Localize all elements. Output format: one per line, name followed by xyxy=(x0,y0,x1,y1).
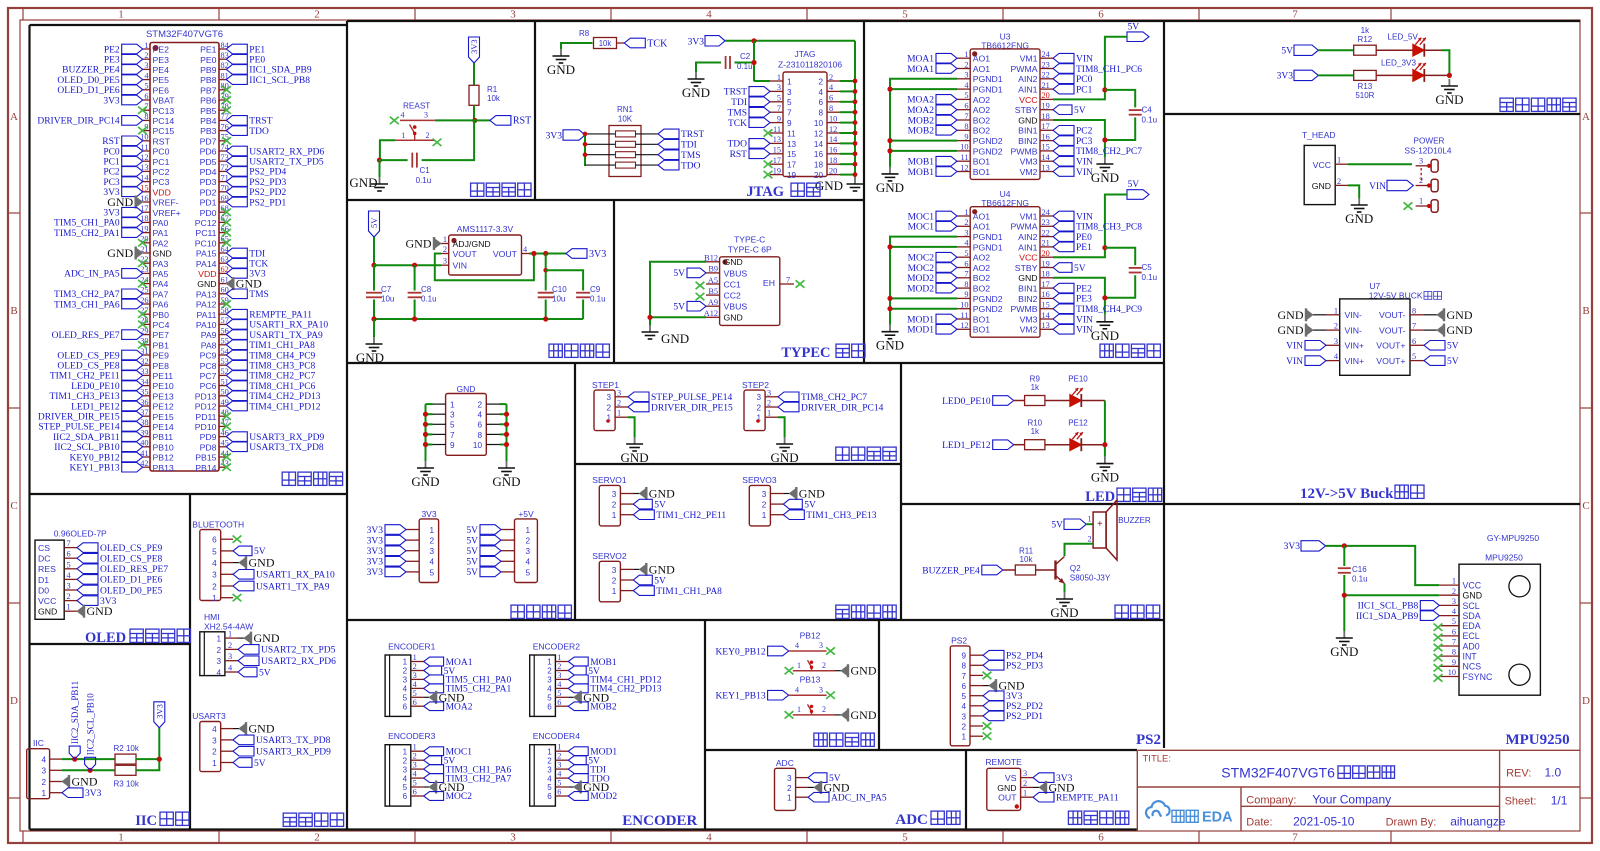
pin 6 VOUT+ U7 xyxy=(1410,344,1424,346)
pin 14 VM3 U3 xyxy=(1040,160,1053,162)
svg-text:1.0: 1.0 xyxy=(1545,766,1562,780)
svg-text:5V: 5V xyxy=(466,558,478,568)
svg-text:PC0: PC0 xyxy=(153,147,170,157)
pin 2 usart3 xyxy=(221,750,233,752)
wire R13 to LED2 xyxy=(1376,74,1413,76)
pin 8 BO2 U4 xyxy=(957,287,970,289)
svg-text:3: 3 xyxy=(216,657,221,666)
svg-text:GND: GND xyxy=(1091,170,1119,185)
svg-text:10u: 10u xyxy=(381,295,394,304)
pin 46 PD9 xyxy=(219,436,226,438)
svg-text:10: 10 xyxy=(1448,668,1456,677)
wire C1 to node up xyxy=(422,120,475,160)
net flag 5V hdr3 xyxy=(480,546,501,556)
svg-text:TIM4_CH2_PD13: TIM4_CH2_PD13 xyxy=(249,392,321,402)
svg-text:PE1: PE1 xyxy=(1076,243,1092,253)
pin 4 ENCODER1 xyxy=(411,687,424,689)
svg-text:16: 16 xyxy=(829,146,837,155)
svg-text:PWMB: PWMB xyxy=(1010,146,1037,156)
block label zhukongxinpian xyxy=(282,472,342,485)
pin 59 PA12 xyxy=(219,303,226,305)
pin 6 bluetooth xyxy=(221,538,233,540)
svg-text:9: 9 xyxy=(787,119,792,128)
net flag 5V SERVO3 xyxy=(783,499,802,509)
pin 2 jtag-right xyxy=(827,80,840,82)
net flag 5V STBY U3 xyxy=(1053,105,1072,115)
svg-text:6: 6 xyxy=(818,98,823,107)
pin 4 VOUT right xyxy=(522,253,530,255)
pin 1 hmi xyxy=(225,637,238,639)
svg-text:+5V: +5V xyxy=(518,509,534,519)
ground jtag bus xyxy=(854,177,856,184)
wire VOUT4 to 3V3 xyxy=(529,253,566,255)
svg-text:ECL: ECL xyxy=(1463,631,1480,641)
net flag TIM4_CH1_PD12 xyxy=(568,675,588,684)
capacitor C10 10u xyxy=(545,254,547,291)
capacitor C U4 xyxy=(1129,267,1142,269)
pin 21 AIN1 U4 xyxy=(1040,246,1053,248)
pin 2 SERVO2 xyxy=(620,579,633,581)
svg-text:BO1: BO1 xyxy=(973,157,991,167)
nc CC2 xyxy=(696,293,705,300)
svg-text:PA6: PA6 xyxy=(153,300,169,310)
svg-text:USART1_RX_PA10: USART1_RX_PA10 xyxy=(249,321,328,331)
svg-text:PC2: PC2 xyxy=(103,168,120,178)
svg-text:PA7: PA7 xyxy=(153,289,169,299)
svg-text:TYPE-C 6P: TYPE-C 6P xyxy=(728,245,772,255)
gnd arrow iic pin2 xyxy=(62,777,68,786)
svg-text:11: 11 xyxy=(787,129,796,138)
svg-text:TIM5_CH1_PA0: TIM5_CH1_PA0 xyxy=(54,219,120,229)
svg-text:BIN2: BIN2 xyxy=(1018,294,1037,304)
pin 20 jtag-right xyxy=(827,174,840,176)
svg-text:PD0: PD0 xyxy=(200,208,217,218)
pin 4 VIN+ U7 xyxy=(1326,360,1340,362)
net flag 3V3 out xyxy=(566,249,587,259)
svg-text:4: 4 xyxy=(212,559,217,568)
svg-text:MPU9250: MPU9250 xyxy=(1505,732,1569,748)
pin 5 5vhdr xyxy=(501,571,515,573)
svg-text:GND: GND xyxy=(38,607,57,617)
pin 72 PD4 xyxy=(219,170,226,172)
svg-text:VIN: VIN xyxy=(1076,168,1093,178)
pin 18 GND U3 xyxy=(1040,119,1053,121)
svg-text:13: 13 xyxy=(1042,163,1050,172)
pin 6 ENCODER1 xyxy=(411,705,424,707)
pin 13 PC2 xyxy=(143,170,150,172)
svg-text:15: 15 xyxy=(1042,143,1050,152)
svg-text:4: 4 xyxy=(706,9,712,21)
net flag TIM1_CH2_PE11 xyxy=(633,510,654,520)
svg-text:R1: R1 xyxy=(487,85,498,94)
svg-text:PD12: PD12 xyxy=(195,402,217,412)
svg-text:2: 2 xyxy=(822,661,826,670)
svg-text:PWMA: PWMA xyxy=(1010,222,1037,232)
wire node down to gnd xyxy=(379,160,381,177)
svg-text:VREF+: VREF+ xyxy=(153,208,181,218)
pin 82 PB9 xyxy=(219,68,226,70)
svg-text:TDO: TDO xyxy=(727,140,747,150)
net flag 5V ENCODER4 xyxy=(568,756,586,765)
pin 6 AO2 U4 xyxy=(957,267,970,269)
svg-text:PWMB: PWMB xyxy=(1010,304,1037,314)
svg-text:aihuangze: aihuangze xyxy=(1450,815,1506,829)
pin 5 ENCODER3 xyxy=(411,786,424,788)
wire bottom rail reg xyxy=(374,318,583,320)
capacitor C2 0.1u xyxy=(725,56,727,69)
switch contact 2 xyxy=(1431,179,1438,192)
wire c-branch U3 xyxy=(1105,90,1135,108)
svg-text:5: 5 xyxy=(964,249,968,258)
wire button3 to node xyxy=(435,119,475,121)
svg-text:2: 2 xyxy=(557,662,561,671)
pin 23 PWMA U4 xyxy=(1040,225,1053,227)
net flag 3V3 hdr4 xyxy=(385,557,406,567)
svg-text:74: 74 xyxy=(221,143,230,152)
svg-text:1: 1 xyxy=(1419,197,1423,206)
ground ind xyxy=(1448,79,1450,86)
svg-text:PE7: PE7 xyxy=(153,330,170,340)
svg-text:USART1_TX_PA9: USART1_TX_PA9 xyxy=(256,582,330,592)
pin 17 VREF+ xyxy=(143,211,150,213)
svg-text:3: 3 xyxy=(1023,769,1027,778)
net flag TIM1_CH1_PA8 xyxy=(633,586,654,596)
svg-text:6: 6 xyxy=(144,92,148,101)
svg-text:4: 4 xyxy=(403,685,408,694)
svg-text:PD2: PD2 xyxy=(200,187,217,197)
pin 5 bluetooth xyxy=(221,550,233,552)
svg-text:3V3: 3V3 xyxy=(1284,542,1301,552)
svg-text:TIM8_CH1_PC6: TIM8_CH1_PC6 xyxy=(1076,65,1142,75)
svg-text:BO2: BO2 xyxy=(973,126,991,136)
svg-text:1: 1 xyxy=(1088,515,1092,524)
svg-text:Date:: Date: xyxy=(1246,817,1272,829)
pin 18 PA0 xyxy=(143,221,150,223)
wire R8 to TCK xyxy=(617,42,625,44)
wire typec gnd B12 xyxy=(650,262,706,325)
svg-text:AMS1117-3.3V: AMS1117-3.3V xyxy=(457,224,514,234)
pin 1 jtag-left xyxy=(770,80,783,82)
svg-text:1: 1 xyxy=(1023,789,1027,798)
svg-text:VOUT: VOUT xyxy=(493,249,518,259)
svg-text:10k: 10k xyxy=(487,94,501,103)
svg-text:7: 7 xyxy=(787,109,792,118)
net flag MOA1 xyxy=(936,64,957,74)
svg-text:BO1: BO1 xyxy=(973,325,991,335)
net flag IIC1_SCL_PB8 xyxy=(1420,601,1439,611)
ground pgnd U4 xyxy=(889,325,891,332)
svg-text:1: 1 xyxy=(617,409,621,418)
svg-text:PA15: PA15 xyxy=(196,249,217,259)
svg-text:20: 20 xyxy=(829,166,837,175)
svg-text:5V: 5V xyxy=(673,303,685,313)
pin 70 PD2 xyxy=(219,191,226,193)
svg-text:C: C xyxy=(1582,500,1589,512)
svg-text:5: 5 xyxy=(902,832,908,844)
svg-text:IIC2_SDA_PB11: IIC2_SDA_PB11 xyxy=(70,681,80,744)
svg-text:Z-231011820106: Z-231011820106 xyxy=(778,60,842,70)
svg-text:GND: GND xyxy=(661,331,689,346)
pin 15 VDD xyxy=(143,191,150,193)
svg-text:R8: R8 xyxy=(579,29,590,38)
ground t_head xyxy=(1358,198,1360,205)
logo lceda xyxy=(1146,801,1170,818)
pin 7 jtag-left xyxy=(770,111,783,113)
pin 5 PE6 xyxy=(143,89,150,91)
wire gnd mpu xyxy=(1344,595,1439,631)
pin 2 adc xyxy=(796,786,808,788)
svg-text:GND: GND xyxy=(87,604,113,618)
pin 1 3v3hdr xyxy=(406,529,419,531)
svg-text:VOUT-: VOUT- xyxy=(1379,326,1406,336)
pin 2 GND mpu xyxy=(1439,594,1459,596)
ground right U4 xyxy=(1104,315,1106,322)
block label duojituozhan xyxy=(836,605,896,618)
svg-text:18: 18 xyxy=(1042,270,1050,279)
pin 19 STBY U4 xyxy=(1040,267,1053,269)
net flag 3V3 hdr2 xyxy=(385,535,406,545)
net flag MOD1 xyxy=(936,314,957,324)
capacitor C8 0.1u xyxy=(414,265,416,290)
pin 23 PA5 xyxy=(143,272,150,274)
svg-text:1: 1 xyxy=(144,41,148,50)
net flag VIN u7 pin4 xyxy=(1305,356,1326,366)
svg-text:5: 5 xyxy=(67,560,71,569)
pin 51 PC6 xyxy=(219,385,226,387)
svg-text:PD5: PD5 xyxy=(200,157,217,167)
pin 5 RES oled xyxy=(64,568,77,570)
pin 16 BIN2 U3 xyxy=(1040,140,1053,142)
svg-text:PGND2: PGND2 xyxy=(973,304,1003,314)
net flag REMPTE_PA11 xyxy=(1033,792,1054,802)
svg-text:USART3_TX_PD8: USART3_TX_PD8 xyxy=(256,736,331,746)
pin 1 ENCODER1 xyxy=(411,661,424,663)
svg-text:6: 6 xyxy=(829,94,833,103)
wire R11 to base xyxy=(1036,569,1056,571)
svg-text:2: 2 xyxy=(1023,779,1027,788)
svg-text:NCS: NCS xyxy=(1463,662,1482,672)
pin 27 PB0 xyxy=(143,313,150,315)
svg-text:PS2_PD4: PS2_PD4 xyxy=(249,168,286,178)
pin 2 GND t_head xyxy=(1335,184,1348,186)
svg-text:GND: GND xyxy=(1463,591,1483,601)
pin 3 D0 oled xyxy=(64,589,77,591)
block label fuweidianlu xyxy=(471,183,531,196)
svg-text:GND: GND xyxy=(249,556,275,570)
pin 1 SERVO2 xyxy=(620,590,633,592)
svg-text:TDI: TDI xyxy=(249,249,265,259)
svg-text:2: 2 xyxy=(547,667,552,676)
svg-text:PE12: PE12 xyxy=(153,402,174,412)
svg-text:21: 21 xyxy=(1042,81,1050,90)
svg-text:GND: GND xyxy=(153,249,172,259)
wire node to RST flag xyxy=(475,119,490,121)
svg-text:1: 1 xyxy=(777,73,781,82)
svg-text:TMS: TMS xyxy=(249,290,269,300)
svg-text:GND: GND xyxy=(724,257,743,267)
pin 34 PE10 xyxy=(143,385,150,387)
svg-text:BO2: BO2 xyxy=(973,284,991,294)
svg-text:2: 2 xyxy=(964,60,968,69)
pin 2 STEP1 xyxy=(615,406,628,408)
pin 79 PB6 xyxy=(219,99,226,101)
svg-text:USART3: USART3 xyxy=(192,711,226,721)
svg-text:1: 1 xyxy=(413,653,417,662)
svg-text:ADC: ADC xyxy=(895,812,928,828)
svg-text:STBY: STBY xyxy=(1015,105,1038,115)
svg-text:GND: GND xyxy=(547,62,575,77)
pin 1 bluetooth xyxy=(221,597,233,599)
pin 14 VM3 U4 xyxy=(1040,318,1053,320)
pin 18 jtag-right xyxy=(827,163,840,165)
svg-text:GND: GND xyxy=(1330,644,1358,659)
svg-text:C2: C2 xyxy=(740,52,751,61)
svg-text:C9: C9 xyxy=(590,285,601,294)
pin 1 STEP1 xyxy=(615,416,628,418)
svg-text:6: 6 xyxy=(961,682,966,691)
wire gndhdr right rail xyxy=(506,404,508,461)
pin 38 PE14 xyxy=(143,425,150,427)
svg-text:PA9: PA9 xyxy=(201,330,217,340)
svg-text:PGND2: PGND2 xyxy=(973,294,1003,304)
svg-text:TDO: TDO xyxy=(249,127,269,137)
pin 50 PD13 xyxy=(219,395,226,397)
svg-text:PE3: PE3 xyxy=(1076,295,1092,305)
node C1 left xyxy=(377,158,382,163)
svg-text:MOC2: MOC2 xyxy=(908,264,935,274)
block label wenyagongdian xyxy=(549,344,609,357)
svg-text:11: 11 xyxy=(773,125,781,134)
svg-text:PS2: PS2 xyxy=(951,636,967,646)
svg-text:IIC1_SDA_PB9: IIC1_SDA_PB9 xyxy=(249,66,312,76)
svg-text:PE14: PE14 xyxy=(153,422,174,432)
svg-text:AO1: AO1 xyxy=(973,64,991,74)
svg-text:PA13: PA13 xyxy=(196,289,217,299)
pin 2 SERVO3 xyxy=(770,503,783,505)
svg-text:PB5: PB5 xyxy=(200,106,217,116)
svg-text:1: 1 xyxy=(964,50,968,59)
svg-text:PD8: PD8 xyxy=(200,442,217,452)
ground R8 xyxy=(560,49,562,56)
svg-text:PD9: PD9 xyxy=(200,432,217,442)
svg-text:PE4: PE4 xyxy=(153,65,170,75)
pin 20 VCC U3 xyxy=(1040,98,1053,100)
pin 2 ENCODER3 xyxy=(411,759,424,761)
pin 2 iic xyxy=(50,781,62,783)
pin 45 PD8 xyxy=(219,446,226,448)
svg-text:C8: C8 xyxy=(421,285,432,294)
svg-text:KEY1_PB13: KEY1_PB13 xyxy=(70,464,120,474)
svg-text:5V: 5V xyxy=(1128,180,1140,190)
net flag RST xyxy=(490,116,511,126)
wire R12 to LED xyxy=(1376,49,1413,51)
wire typec gnd A12 xyxy=(650,316,706,318)
pin 9 PGND2 U3 xyxy=(957,140,970,142)
pin 44 PB15 xyxy=(219,456,226,458)
svg-text:15: 15 xyxy=(787,150,797,159)
svg-text:1k: 1k xyxy=(1361,26,1370,35)
svg-text:1: 1 xyxy=(401,131,405,140)
net flag 3V3 iic pin1 xyxy=(62,788,83,798)
svg-text:3: 3 xyxy=(413,761,417,770)
svg-text:8: 8 xyxy=(964,122,968,131)
svg-text:3: 3 xyxy=(1419,156,1423,165)
svg-text:16: 16 xyxy=(814,150,824,159)
svg-text:PB14: PB14 xyxy=(195,463,216,473)
svg-text:PA14: PA14 xyxy=(196,259,217,269)
svg-text:20: 20 xyxy=(1042,91,1050,100)
svg-text:3: 3 xyxy=(67,582,71,591)
svg-text:1: 1 xyxy=(212,594,217,603)
svg-text:TDI: TDI xyxy=(731,98,747,108)
svg-text:TIM8_CH2_PC7: TIM8_CH2_PC7 xyxy=(1076,147,1142,157)
svg-text:CC2: CC2 xyxy=(724,291,742,301)
svg-text:ADJ/GND: ADJ/GND xyxy=(453,239,491,249)
pin 16 BIN2 U4 xyxy=(1040,297,1053,299)
net flag MOB2 xyxy=(936,115,957,125)
svg-text:VIN: VIN xyxy=(1076,326,1093,336)
pin 1 adc xyxy=(796,796,808,798)
svg-text:U7: U7 xyxy=(1369,281,1380,291)
net flag ADC_IN_PA5 xyxy=(808,792,829,802)
svg-text:PA3: PA3 xyxy=(153,259,169,269)
pin 5 3v3hdr xyxy=(406,571,419,573)
svg-text:4: 4 xyxy=(547,774,552,783)
pin 10 gndhdr xyxy=(486,444,499,446)
pin 2 VOUT xyxy=(441,253,449,255)
svg-text:17: 17 xyxy=(1042,280,1050,289)
svg-text:4: 4 xyxy=(401,110,405,119)
svg-text:3: 3 xyxy=(547,765,552,774)
svg-text:10: 10 xyxy=(960,301,968,310)
svg-text:PS2: PS2 xyxy=(1136,732,1161,748)
pin 6 ENCODER3 xyxy=(411,795,424,797)
pin 7 PC13 xyxy=(143,109,150,111)
block label fengmingqi xyxy=(1115,605,1160,618)
net flag 5V ENCODER2 xyxy=(568,666,586,675)
svg-text:1: 1 xyxy=(557,653,561,662)
svg-text:3: 3 xyxy=(547,676,552,685)
svg-text:KEY0_PB12: KEY0_PB12 xyxy=(70,453,120,463)
svg-text:A: A xyxy=(10,111,18,123)
net flag PE2 U4 xyxy=(1053,283,1074,293)
svg-text:GND: GND xyxy=(771,450,799,465)
svg-text:EDA: EDA xyxy=(1463,621,1481,631)
svg-text:3V3: 3V3 xyxy=(367,526,384,536)
svg-text:SS-12D10L4: SS-12D10L4 xyxy=(1405,146,1452,155)
svg-text:OUT: OUT xyxy=(998,793,1017,803)
svg-text:PE5: PE5 xyxy=(153,75,170,85)
pin 4 iic xyxy=(50,758,62,760)
svg-text:PC8: PC8 xyxy=(200,361,217,371)
pin 74 PD6 xyxy=(219,150,226,152)
wire LED to corner xyxy=(1424,49,1441,51)
svg-text:PB8: PB8 xyxy=(200,75,217,85)
svg-text:3V3: 3V3 xyxy=(103,209,120,219)
svg-text:B: B xyxy=(1582,305,1589,317)
pin 22 AIN2 U4 xyxy=(1040,236,1053,238)
svg-text:MOB2: MOB2 xyxy=(908,127,935,137)
svg-text:1: 1 xyxy=(403,747,408,756)
ground led ind xyxy=(1104,457,1106,464)
svg-text:2: 2 xyxy=(228,641,232,650)
svg-text:2: 2 xyxy=(426,131,430,140)
svg-text:PB6: PB6 xyxy=(200,96,217,106)
net flag KEY1_PB13 xyxy=(768,690,789,700)
pin 52 PC7 xyxy=(219,374,226,376)
net flag USART2_TX_PD5 xyxy=(238,645,259,655)
pin 3 adc xyxy=(796,777,808,779)
